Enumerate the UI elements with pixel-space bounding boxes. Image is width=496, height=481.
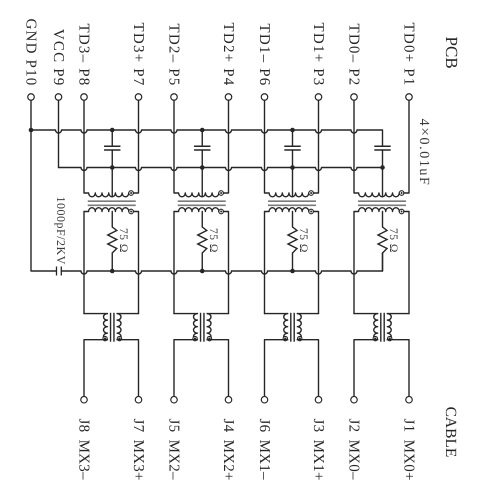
terminal P8 [81,94,88,101]
transformer T1 primary phase dot [129,191,134,196]
wire T3 primary dotted end to P6 [313,100,318,193]
svg-text:J4 MX2+: J4 MX2+ [220,419,236,481]
transformer T2 core [178,201,226,205]
capacitor C2 0.01uF (lead from GND bus) [201,130,203,146]
terminal P1 [406,94,413,101]
choke L2 right winding [207,314,211,340]
wire choke L4 to J1 [387,340,409,397]
terminal J6 [261,396,268,403]
svg-text:J6 MX1–: J6 MX1– [256,419,272,481]
resistor R4 75 ohm [378,227,387,253]
svg-text:TD1– P6: TD1– P6 [256,24,272,87]
transformer T1 secondary winding (cable side) [84,208,129,314]
svg-text:J2 MX0–: J2 MX0– [346,419,362,481]
node GND bus / C1 junction [110,128,115,133]
svg-text:75 Ω: 75 Ω [207,228,219,253]
choke L1 top leads [84,313,139,315]
svg-text:TD2+ P4: TD2+ P4 [220,23,236,87]
node VCC bus / T4 centre tap junction [380,165,385,170]
capacitor C3 lead to VCC bus [292,150,294,168]
wire T3 primary centre tap [292,168,294,197]
svg-text:1000pF/2KV: 1000pF/2KV [54,197,68,265]
svg-text:J8 MX3–: J8 MX3– [76,419,92,481]
terminal P10 [28,94,35,101]
choke L3 right winding [297,314,301,340]
transformer T3 primary winding (PCB side) [265,100,309,197]
choke L3 left winding [284,314,288,340]
wire choke L1 to J7 [117,340,138,397]
svg-text:J7 MX3+: J7 MX3+ [130,419,146,481]
capacitor C3 0.01uF (lead from GND bus) [292,130,294,146]
capacitor C2 0.01uF plates [194,146,210,150]
terminal P4 [225,94,232,101]
wire choke L3 to J6 [265,340,288,397]
svg-text:CABLE: CABLE [442,407,459,458]
transformer T3 secondary winding (cable side) [265,208,309,314]
terminal J5 [171,396,178,403]
choke L2 left phase dot [193,336,197,340]
transformer T4 secondary winding (cable side) [354,208,399,314]
wire T2 secondary dotted end down to choke L2 [223,212,228,314]
wire T4 primary centre tap [382,168,384,197]
wire T2 secondary centre tap [201,212,203,228]
choke L3 top leads [265,313,319,315]
capacitor C5 1000pF/2KV plates [57,267,62,276]
transformer T1 primary winding (PCB side) [84,100,129,197]
choke L4 right phase dot [388,336,392,340]
choke L4 left phase dot [373,336,377,340]
transformer T4 core [358,201,406,205]
svg-text:4×0.01uF: 4×0.01uF [416,119,433,187]
node GND bus / C3 junction [290,128,295,133]
node VCC bus / T2 centre tap junction [200,165,205,170]
node R1 / termination rail junction [110,269,115,274]
resistor R3 75 ohm [288,227,297,253]
wire VCC P9 vertical [58,100,60,167]
terminal J2 [351,396,358,403]
wire choke L2 to J4 [207,340,228,397]
transformer T3 secondary phase dot [309,209,314,214]
wire choke L1 to J8 [84,340,107,397]
wire choke L4 to J2 [354,340,378,397]
svg-text:75 Ω: 75 Ω [117,228,129,253]
wire T4 primary dotted end to P2 [404,100,409,193]
transformer T2 secondary winding (cable side) [174,208,219,314]
wire T3 secondary centre tap [292,212,294,228]
transformer T2 primary phase dot [219,191,224,196]
resistor R1 75 ohm [108,227,117,253]
terminal P6 [261,94,268,101]
node GND bus / C2 junction [200,128,205,133]
node R2 / termination rail junction [200,269,205,274]
wire R3 to termination rail [292,253,294,271]
svg-text:J3 MX1+: J3 MX1+ [310,419,326,481]
terminal J4 [225,396,232,403]
terminal P7 [135,94,142,101]
capacitor C1 0.01uF (lead from GND bus) [111,130,113,146]
svg-text:TD2– P5: TD2– P5 [166,24,182,87]
transformer T4 secondary phase dot [399,209,404,214]
choke L1 left phase dot [103,336,107,340]
choke L3 left phase dot [283,336,287,340]
transformer T4 primary winding (PCB side) [354,100,399,197]
wire R1 to termination rail [111,253,113,271]
svg-text:TD0+ P1: TD0+ P1 [401,23,417,87]
capacitor C1 lead to VCC bus [111,150,113,168]
capacitor C3 0.01uF plates [284,146,300,150]
transformer T1 core [88,201,136,205]
svg-text:TD1+ P3: TD1+ P3 [310,23,326,87]
wire R4 to termination rail [382,253,384,271]
wire T3 secondary dotted end down to choke L3 [313,212,318,314]
choke L2 core [201,313,204,342]
wire Bob-Smith termination rail [61,253,382,274]
svg-text:75 Ω: 75 Ω [387,228,399,253]
svg-text:GND P10: GND P10 [23,19,39,87]
choke L3 right phase dot [298,336,302,340]
choke L1 right winding [117,314,121,340]
terminal J3 [315,396,322,403]
transformer T2 secondary phase dot [219,209,224,214]
terminal J8 [81,396,88,403]
resistor R2 75 ohm [198,227,207,253]
wire choke L3 to J3 [297,340,318,397]
node VCC bus / T3 centre tap junction [290,165,295,170]
terminal P2 [351,94,358,101]
choke L1 left winding [103,314,107,340]
choke L1 right phase dot [117,336,121,340]
svg-text:TD3– P8: TD3– P8 [76,24,92,87]
transformer T2 primary winding (PCB side) [174,100,219,197]
choke L2 left winding [193,314,197,340]
wire GND bus (chassis top rail) [31,130,383,146]
wire GND P10 net (vertical and bend to C5) [31,100,56,271]
terminal P5 [171,94,178,101]
choke L3 core [291,313,294,342]
node R3 / termination rail junction [290,269,295,274]
capacitor C4 0.01uF plates [374,146,390,150]
wire T4 secondary centre tap [382,212,384,228]
svg-text:PCB: PCB [442,37,461,69]
wire T4 secondary dotted end down to choke L4 [404,212,409,314]
terminal J7 [135,396,142,403]
svg-text:VCC P9: VCC P9 [50,29,66,87]
svg-text:TD0– P2: TD0– P2 [346,24,362,87]
terminal P3 [315,94,322,101]
transformer T3 primary phase dot [309,191,314,196]
capacitor C4 lead to VCC bus [382,150,384,168]
terminal J1 [406,396,413,403]
wire T1 secondary centre tap [111,212,113,228]
svg-text:J1 MX0+: J1 MX0+ [401,419,417,481]
svg-text:75 Ω: 75 Ω [297,228,309,253]
capacitor C2 lead to VCC bus [201,150,203,168]
choke L4 left winding [374,314,378,340]
terminal P9 [55,94,62,101]
choke L4 right winding [387,314,391,340]
choke L1 core [111,313,114,342]
choke L4 core [381,313,384,342]
transformer T4 primary phase dot [399,191,404,196]
transformer T1 secondary phase dot [129,209,134,214]
wire T1 primary dotted end to P8 [133,100,138,193]
wire choke L2 to J5 [174,340,197,397]
svg-text:J5 MX2–: J5 MX2– [166,419,182,481]
choke L2 right phase dot [207,336,211,340]
transformer T3 core [268,201,316,205]
choke L2 top leads [174,313,229,315]
choke L4 top leads [354,313,409,315]
wire VCC centre-tap bus [59,168,383,171]
svg-text:TD3+ P7: TD3+ P7 [130,23,146,87]
wire R2 to termination rail [201,253,203,271]
wire T2 primary centre tap [201,168,203,197]
wire T1 secondary dotted end down to choke L1 [133,212,138,314]
capacitor C1 0.01uF plates [104,146,120,150]
wire T2 primary dotted end to P5 [223,100,228,193]
wire T1 primary centre tap [111,168,113,197]
node GND bus / P10 junction [29,128,34,133]
node VCC bus / T1 centre tap junction [110,165,115,170]
